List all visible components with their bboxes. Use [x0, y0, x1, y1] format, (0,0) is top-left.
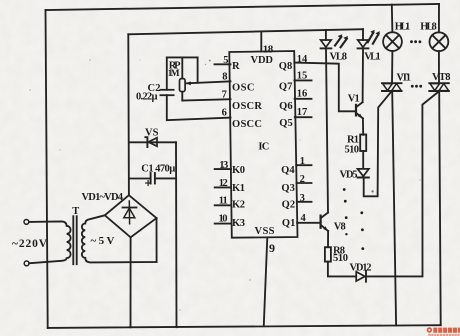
- wire left mains rail: [46, 10, 48, 328]
- svg-text:Q8: Q8: [279, 61, 293, 72]
- wire VDD pin 18: [260, 31, 262, 51]
- wire Q4 pin 1 stub: [296, 164, 311, 166]
- triac VT1: [382, 82, 402, 84]
- wire VT8 to ground rail: [439, 91, 441, 325]
- svg-text:R: R: [232, 61, 240, 72]
- wire V1 emitter to R1: [362, 118, 364, 134]
- svg-text:OSC: OSC: [232, 83, 255, 94]
- scan speckles: [205, 60, 374, 193]
- svg-text:5: 5: [223, 55, 228, 66]
- svg-text:VD5: VD5: [340, 169, 358, 180]
- svg-text:K1: K1: [232, 183, 245, 194]
- wire top mains rail: [46, 4, 440, 10]
- LED VL1: [358, 40, 369, 47]
- wire Q1 pin 4 to V8 base: [297, 222, 321, 224]
- wire HL1 to VT1: [391, 51, 393, 83]
- svg-text:VSS: VSS: [255, 226, 275, 237]
- wire wiper junction vertical: [197, 57, 199, 82]
- svg-text:Q3: Q3: [281, 183, 295, 194]
- terminal ~220V lower: [24, 261, 29, 266]
- potentiometer RP 1M: [180, 79, 186, 92]
- ellipsis channels column A: [343, 188, 346, 191]
- capacitor C1 470u: [130, 178, 151, 180]
- svg-text:VDD: VDD: [251, 55, 274, 66]
- svg-text:K0: K0: [232, 165, 245, 176]
- wire V1 collector to VL1: [362, 50, 364, 102]
- wire VD5 to VT1 gate: [364, 91, 392, 196]
- svg-text:15: 15: [297, 70, 308, 81]
- wire V8 collector to VL8: [326, 50, 328, 213]
- svg-text:K2: K2: [232, 200, 245, 211]
- svg-text:10: 10: [219, 213, 228, 224]
- svg-text:14: 14: [297, 54, 308, 65]
- wire reset pin 5 stub: [215, 63, 231, 65]
- ellipsis between lamps: [343, 40, 422, 250]
- wire C2 top vertical: [166, 57, 168, 89]
- wire VDD top rail: [128, 29, 363, 34]
- triac VT8: [429, 82, 449, 84]
- svg-text:~220V: ~220V: [12, 238, 48, 250]
- transistor V8: [320, 216, 322, 228]
- transformer T primary winding with leads: [29, 221, 71, 263]
- svg-text:VD12: VD12: [350, 262, 372, 273]
- wire R8 to VD12: [328, 262, 356, 277]
- svg-text:510: 510: [333, 253, 348, 264]
- svg-text:510: 510: [345, 145, 360, 156]
- wire bridge right vertex lead: [156, 218, 158, 262]
- wire Q7 pin 15 stub: [294, 79, 311, 81]
- svg-text:C1 470µ: C1 470µ: [141, 163, 175, 174]
- wire Q3 pin 2 stub: [297, 182, 312, 184]
- svg-text:VL8: VL8: [330, 52, 348, 63]
- svg-text:VD1~VD4: VD1~VD4: [82, 192, 124, 203]
- wire bridge plus vertical to VDD rail: [127, 34, 130, 195]
- wire VD12 to VT8 gate: [366, 91, 439, 276]
- ellipsis between triacs: [411, 85, 414, 88]
- wire Q6 pin 16 stub: [295, 98, 312, 100]
- svg-text:K3: K3: [232, 218, 245, 229]
- zener VS: [129, 141, 176, 143]
- svg-text:Q5: Q5: [279, 118, 293, 129]
- svg-text:VT1: VT1: [397, 72, 412, 83]
- wire Q8 pin 14 to V1 base: [294, 63, 356, 112]
- svg-text:0.22µ: 0.22µ: [136, 91, 158, 102]
- svg-text:7: 7: [222, 89, 227, 100]
- svg-text:12: 12: [219, 178, 228, 189]
- svg-text:VT8: VT8: [432, 72, 451, 83]
- svg-text:~5V: ~5V: [91, 235, 115, 247]
- ellipsis channels column B: [360, 211, 363, 214]
- wire VT1 to ground rail: [392, 91, 396, 326]
- LED VL8: [321, 40, 332, 47]
- svg-text:13: 13: [219, 160, 228, 171]
- wire Q2 pin 3 stub: [297, 201, 312, 203]
- svg-text:8: 8: [222, 72, 227, 83]
- wire HL8 to VT8: [438, 51, 440, 83]
- resistor R8 510: [325, 247, 331, 261]
- svg-text:Q1: Q1: [282, 218, 296, 229]
- svg-text:18: 18: [263, 43, 274, 55]
- transformer T core: [72, 216, 74, 264]
- svg-text:VL1: VL1: [364, 52, 381, 63]
- svg-text:1M: 1M: [168, 69, 180, 79]
- svg-text:HL8: HL8: [420, 21, 437, 32]
- svg-text:T: T: [72, 206, 79, 217]
- svg-text:9: 9: [269, 241, 275, 255]
- svg-text:V8: V8: [334, 221, 346, 232]
- wire V8 emitter to R8: [327, 231, 329, 247]
- wire K2 pin 11 stub: [215, 204, 232, 206]
- svg-text:6: 6: [222, 108, 227, 119]
- svg-text:Q4: Q4: [281, 165, 295, 176]
- bridge rectifier VD1~VD4: [105, 195, 157, 237]
- svg-text:Q7: Q7: [279, 81, 293, 92]
- svg-text:VS: VS: [145, 127, 159, 138]
- resistor R1 510: [360, 135, 366, 152]
- svg-text:IC: IC: [258, 142, 269, 153]
- RC oscillator network top wire: [167, 56, 198, 58]
- wire K0 pin 13 stub: [215, 168, 231, 170]
- svg-text:11: 11: [219, 195, 228, 206]
- svg-text:17: 17: [297, 107, 308, 118]
- wire ground vertical: [175, 142, 178, 327]
- lamp HL1: [391, 5, 394, 33]
- svg-text:HL1: HL1: [395, 22, 411, 33]
- svg-text:1: 1: [300, 156, 305, 167]
- wire K3 pin 10 stub: [215, 223, 232, 225]
- svg-text:4: 4: [301, 213, 307, 224]
- svg-text:3: 3: [300, 193, 305, 204]
- capacitor C2 0.22u: [160, 89, 173, 91]
- terminal ~220V upper: [24, 220, 29, 225]
- diode VD5: [358, 169, 369, 176]
- diode VD12: [356, 272, 365, 281]
- svg-text:Q6: Q6: [279, 101, 293, 112]
- transformer T secondary winding with leads: [82, 215, 157, 262]
- wire K1 pin 12 stub: [215, 186, 231, 188]
- wire RP bottom to OSCR pin 7: [182, 99, 230, 100]
- lamp HL8: [438, 4, 440, 32]
- wire wiper to OSC pin 8: [187, 81, 231, 83]
- wire bottom ground rail: [48, 325, 441, 328]
- wire R1 to VD5: [362, 151, 364, 168]
- wire C2 bottom to OSCC pin 6: [167, 95, 231, 120]
- svg-text:2: 2: [300, 174, 305, 185]
- transistor V1: [355, 105, 357, 116]
- watermark logo: [427, 327, 460, 336]
- svg-text:V1: V1: [348, 93, 360, 104]
- wire bridge minus vertical to ground rail: [130, 237, 132, 327]
- wire VSS pin 9: [264, 237, 268, 325]
- svg-text:16: 16: [297, 89, 308, 100]
- svg-text:Q2: Q2: [282, 200, 296, 211]
- svg-text:OSCR: OSCR: [232, 101, 262, 112]
- IC U1 box: [229, 51, 297, 238]
- wire Q5 pin 17 stub: [295, 116, 312, 118]
- svg-text:OSCC: OSCC: [232, 119, 262, 130]
